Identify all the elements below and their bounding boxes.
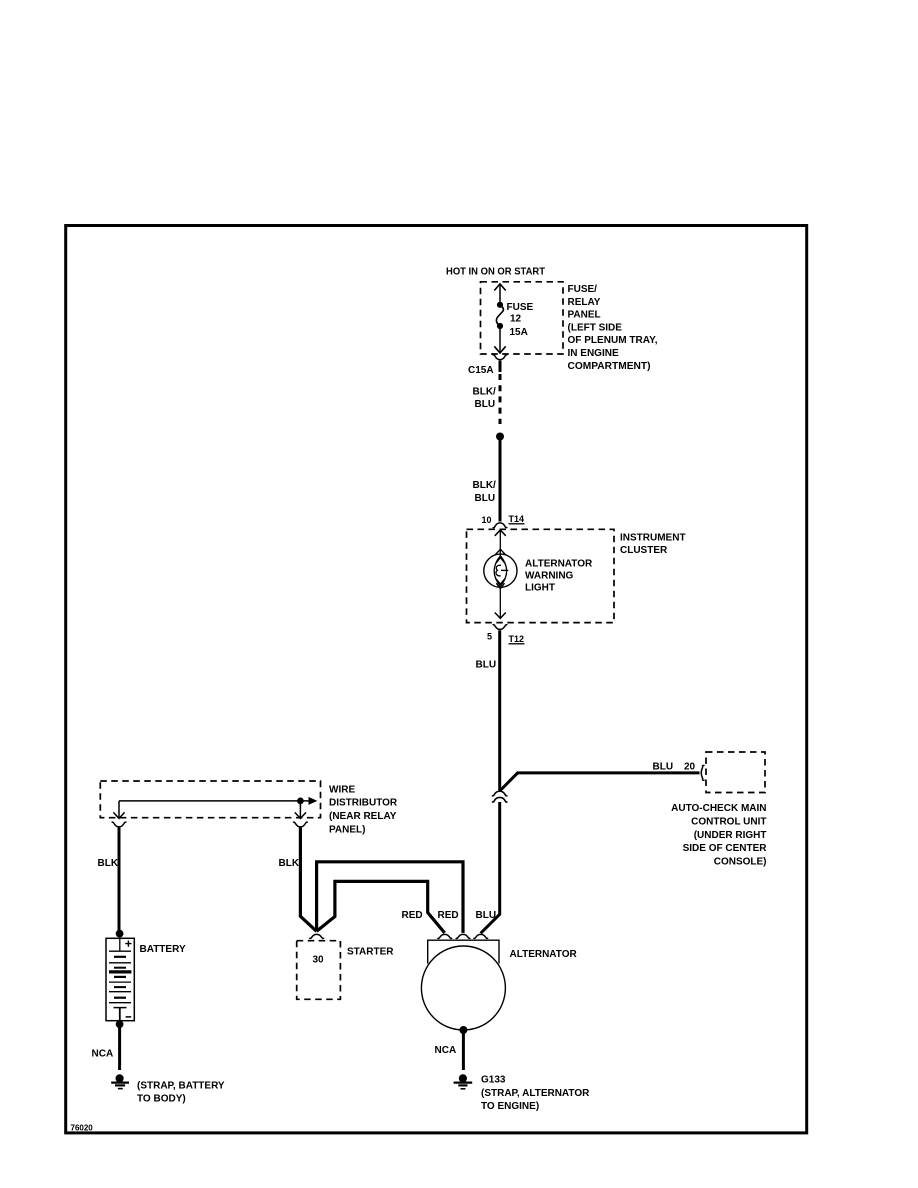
fuse/relay panel dashed box <box>481 282 564 354</box>
svg-text:LIGHT: LIGHT <box>525 583 555 594</box>
alternator warning light lamp <box>484 549 517 588</box>
alternator bottom junction dot <box>459 1026 467 1034</box>
svg-text:20: 20 <box>684 762 696 773</box>
svg-text:BLU: BLU <box>653 762 674 773</box>
wire distributor dashed box <box>100 781 320 818</box>
arrowhead up at fuse panel top <box>494 284 505 291</box>
junction dot in distributor <box>297 798 304 805</box>
svg-text:FUSE: FUSE <box>507 302 534 313</box>
svg-text:ALTERNATOR: ALTERNATOR <box>510 949 578 960</box>
wire (thick) down to instrument cluster <box>499 437 502 522</box>
connector at alternator RED terminal (middle) <box>456 934 471 938</box>
connector T14 <box>493 523 508 528</box>
svg-text:RED: RED <box>402 910 423 921</box>
svg-text:ALTERNATOR: ALTERNATOR <box>525 558 593 569</box>
svg-text:BLU: BLU <box>475 399 496 410</box>
svg-text:PANEL: PANEL <box>568 310 601 321</box>
svg-text:RELAY: RELAY <box>568 297 601 308</box>
in-line connector on BLU wire (lower half) <box>492 797 507 802</box>
starter feed wire loop (thick): vertex up, over to middle RED terminal <box>317 862 463 933</box>
connector below distributor (left) <box>112 822 127 827</box>
svg-text:(LEFT SIDE: (LEFT SIDE <box>568 322 623 333</box>
connector at alternator RED terminal (left) <box>438 934 453 938</box>
arrowhead down (right drop) <box>295 812 306 818</box>
wire label BLK/BLU (lower) <box>473 480 497 504</box>
svg-text:T12: T12 <box>509 634 525 644</box>
alternator circle <box>421 946 505 1030</box>
battery top junction dot <box>116 930 124 938</box>
drop wire (thin) left in distributor <box>118 801 120 818</box>
connector T14 label <box>509 514 525 524</box>
svg-text:BLU: BLU <box>475 493 496 504</box>
ground G (strap, battery to body) <box>111 1074 129 1088</box>
drop wire (thin) right in distributor <box>299 801 301 818</box>
ground G133 (strap, alternator to engine) <box>454 1074 473 1089</box>
battery <box>106 938 134 1020</box>
svg-text:BATTERY: BATTERY <box>140 944 186 955</box>
svg-text:(STRAP, ALTERNATOR: (STRAP, ALTERNATOR <box>481 1088 590 1099</box>
svg-text:BLK/: BLK/ <box>473 386 497 397</box>
junction dot on wire <box>496 433 504 441</box>
arrowhead down at fuse panel bottom <box>494 346 505 353</box>
arrowhead down inside cluster bottom <box>495 613 506 619</box>
svg-text:G133: G133 <box>481 1075 506 1086</box>
svg-text:WARNING: WARNING <box>525 571 574 582</box>
wire branch to auto-check unit (thick) <box>500 773 700 791</box>
svg-text:5: 5 <box>487 632 492 642</box>
wire (thin) inside distributor <box>119 800 310 802</box>
wire NCA (thick) alternator to ground <box>462 1030 465 1070</box>
svg-text:TO BODY): TO BODY) <box>137 1094 186 1105</box>
auto-check unit label <box>671 803 767 867</box>
svg-text:IN ENGINE: IN ENGINE <box>568 348 619 359</box>
wire (thin) lamp to cluster bottom <box>499 587 501 618</box>
fuse/relay panel label <box>568 284 658 372</box>
dashed wire BLK/BLU <box>499 374 502 424</box>
instrument cluster label <box>620 532 686 555</box>
wire BLU (thick) down to alternator <box>481 802 500 933</box>
svg-text:(UNDER RIGHT: (UNDER RIGHT <box>694 830 767 841</box>
wire BLK (thick) to battery <box>118 828 121 933</box>
starter-alternator lower loop (thick): vertex to left RED terminal <box>317 881 445 933</box>
border frame <box>66 226 807 1133</box>
connector at alternator BLU terminal <box>474 934 489 938</box>
arrowhead right at distributor wire end <box>309 797 318 805</box>
wire label BLK/BLU (upper) <box>473 386 497 409</box>
lamp label <box>525 558 593 593</box>
svg-text:FUSE/: FUSE/ <box>568 284 598 295</box>
svg-text:CLUSTER: CLUSTER <box>620 545 668 556</box>
arrowhead up inside cluster top <box>495 530 506 536</box>
svg-text:DISTRIBUTOR: DISTRIBUTOR <box>329 798 398 809</box>
wire NCA (thick) battery to ground <box>118 1024 121 1070</box>
auto-check main control unit dashed box <box>706 752 765 793</box>
ground label (strap, battery to body) <box>137 1080 225 1104</box>
svg-text:BLK: BLK <box>98 858 119 869</box>
svg-text:12: 12 <box>510 313 522 324</box>
svg-text:BLU: BLU <box>476 660 497 671</box>
wire stub below C15A (thick) <box>499 361 502 373</box>
svg-text:NCA: NCA <box>92 1048 114 1059</box>
svg-text:10: 10 <box>482 515 492 525</box>
wire inside fuse panel (thin, with arrows) <box>499 284 501 353</box>
svg-text:(NEAR RELAY: (NEAR RELAY <box>329 811 397 822</box>
svg-text:15A: 15A <box>510 327 528 338</box>
svg-text:C15A: C15A <box>468 365 494 376</box>
connector C15A <box>493 355 508 360</box>
svg-text:INSTRUMENT: INSTRUMENT <box>620 532 686 543</box>
arrowhead down (left drop) <box>113 812 124 818</box>
connector T12 <box>493 625 508 630</box>
svg-text:76020: 76020 <box>71 1124 94 1133</box>
svg-text:WIRE: WIRE <box>329 784 355 795</box>
battery bottom junction dot <box>116 1020 124 1028</box>
connector at starter terminal 30 <box>309 934 324 938</box>
svg-text:SIDE OF CENTER: SIDE OF CENTER <box>683 843 768 854</box>
connector T12 label <box>509 634 525 644</box>
svg-text:T14: T14 <box>509 514 525 524</box>
fuse F12 symbol <box>496 302 503 329</box>
starter dashed box <box>297 941 341 1000</box>
svg-text:BLK/: BLK/ <box>473 480 497 491</box>
svg-text:RED: RED <box>438 910 459 921</box>
svg-text:HOT IN ON OR START: HOT IN ON OR START <box>446 266 545 277</box>
svg-text:AUTO-CHECK MAIN: AUTO-CHECK MAIN <box>671 803 766 814</box>
connector below distributor (right) <box>293 822 308 827</box>
alternator housing rectangle (open bottom) <box>428 940 499 963</box>
fuse value label <box>507 302 534 338</box>
svg-text:STARTER: STARTER <box>347 946 394 957</box>
svg-text:BLU: BLU <box>476 910 497 921</box>
instrument cluster dashed box <box>467 529 615 622</box>
svg-text:CONTROL UNIT: CONTROL UNIT <box>691 817 766 828</box>
wire (thin) to lamp <box>499 531 501 557</box>
svg-text:(STRAP, BATTERY: (STRAP, BATTERY <box>137 1080 225 1091</box>
svg-text:CONSOLE): CONSOLE) <box>714 856 767 867</box>
svg-text:OF PLENUM TRAY,: OF PLENUM TRAY, <box>568 335 658 346</box>
svg-text:BLK: BLK <box>279 858 300 869</box>
svg-text:TO ENGINE): TO ENGINE) <box>481 1101 539 1112</box>
wire distributor label <box>329 784 398 835</box>
svg-text:30: 30 <box>313 955 325 966</box>
connector at auto-check unit <box>701 765 704 780</box>
svg-text:COMPARTMENT): COMPARTMENT) <box>568 361 651 372</box>
in-line connector on BLU wire (upper half) <box>492 791 507 796</box>
svg-text:NCA: NCA <box>435 1045 457 1056</box>
wire BLU (thick) down from T12 <box>498 630 501 791</box>
wire BLK (thick) to starter <box>300 828 316 932</box>
svg-text:PANEL): PANEL) <box>329 824 365 835</box>
ground G133 label <box>481 1075 590 1112</box>
